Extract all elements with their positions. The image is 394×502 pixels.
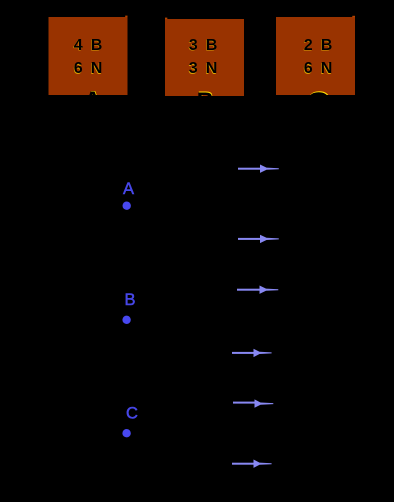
black letter C under box C bbox=[306, 85, 331, 124]
box C label: 2 B / 6 N bbox=[303, 37, 332, 78]
blue dot A bbox=[123, 202, 131, 210]
blue dot C bbox=[122, 429, 130, 437]
svg-text:3 N: 3 N bbox=[189, 60, 218, 77]
nucleus box C bbox=[276, 17, 355, 95]
arrow 4 bbox=[232, 349, 272, 357]
arrow 6 bbox=[232, 460, 272, 468]
nucleus box B bbox=[165, 19, 244, 96]
arrow 3 bbox=[237, 286, 278, 294]
arrow 1 bbox=[238, 165, 279, 173]
arrow 5 bbox=[233, 399, 273, 407]
box B top-left corner bump bbox=[165, 18, 167, 20]
box A top-right corner bump bbox=[125, 16, 127, 18]
svg-text:A: A bbox=[123, 180, 134, 198]
blue dot B bbox=[122, 316, 130, 324]
svg-text:4 B: 4 B bbox=[74, 37, 103, 54]
svg-text:6 N: 6 N bbox=[304, 60, 333, 77]
arrow 2 bbox=[238, 235, 279, 243]
box C top-right corner bump bbox=[352, 16, 355, 17]
box A label: 4 B / 6 N bbox=[73, 37, 102, 78]
nucleus box A bbox=[49, 17, 128, 95]
svg-text:C: C bbox=[126, 405, 138, 423]
svg-text:B: B bbox=[124, 291, 135, 309]
svg-text:2 B: 2 B bbox=[304, 37, 333, 54]
svg-text:3 B: 3 B bbox=[189, 37, 218, 54]
black letter B under box B bbox=[197, 87, 215, 114]
svg-text:6 N: 6 N bbox=[74, 60, 103, 77]
box B label: 3 B / 3 N bbox=[188, 37, 217, 78]
black letter A under box A bbox=[84, 86, 102, 113]
